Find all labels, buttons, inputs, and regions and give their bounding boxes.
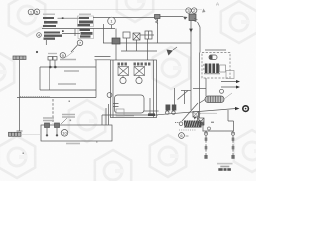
svg-text:A: A [216,2,219,7]
